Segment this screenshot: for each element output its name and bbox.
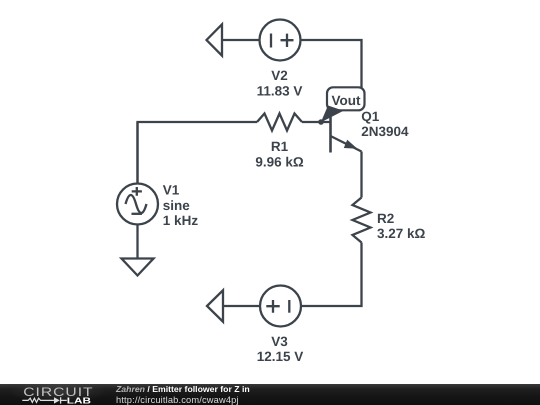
svg-text:3.27 kΩ: 3.27 kΩ — [377, 226, 426, 241]
svg-text:R2: R2 — [377, 211, 394, 226]
wire V2 to collector corner — [301, 40, 362, 96]
svg-text:11.83 V: 11.83 V — [257, 83, 303, 98]
svg-text:R1: R1 — [271, 139, 289, 154]
svg-text:9.96 kΩ: 9.96 kΩ — [255, 154, 304, 169]
svg-text:sine: sine — [163, 198, 191, 213]
logo diode — [54, 397, 60, 403]
wire R2 down to V3 corner — [301, 243, 362, 307]
Vout pointer — [321, 106, 344, 123]
transistor Q1 base bar — [329, 116, 332, 153]
svg-text:V2: V2 — [271, 68, 288, 83]
svg-text:V3: V3 — [271, 334, 288, 349]
footer url — [116, 396, 239, 405]
node junction dot — [318, 119, 324, 125]
resistor R1 — [257, 114, 302, 131]
transistor Q1 emitter — [331, 136, 362, 152]
svg-text:2N3904: 2N3904 — [361, 124, 409, 139]
svg-text:V1: V1 — [163, 183, 180, 198]
svg-text:Q1: Q1 — [361, 109, 380, 124]
resistor R2 — [353, 198, 371, 243]
svg-text:LAB: LAB — [67, 397, 91, 405]
node label box Vout — [327, 87, 365, 110]
ground — [122, 259, 154, 276]
wire V3 to flag — [223, 305, 260, 307]
net flag F2 (bottom left) — [207, 290, 223, 321]
wire emitter down to R2 — [360, 152, 362, 198]
CircuitLab logo — [0, 383, 100, 405]
wire R1 to Q1 base — [302, 121, 331, 123]
emitter arrow of Q1 — [344, 140, 358, 149]
svg-text:Vout: Vout — [332, 93, 361, 108]
wire R1 left + corner down to V1 — [138, 122, 258, 184]
voltage source V2 — [260, 20, 301, 61]
voltage source V1 wire top — [136, 122, 138, 184]
footer bar — [0, 384, 540, 405]
wire flag to V2 — [222, 39, 260, 41]
net flag F1 (top left) — [207, 24, 223, 55]
footer title — [116, 385, 250, 394]
voltage source V3 — [260, 286, 301, 327]
wire V1 to ground — [136, 225, 138, 259]
logo resistor — [22, 398, 54, 402]
voltage source V1 — [117, 184, 158, 225]
svg-text:12.15 V: 12.15 V — [257, 349, 304, 364]
svg-text:1 kHz: 1 kHz — [163, 213, 199, 228]
